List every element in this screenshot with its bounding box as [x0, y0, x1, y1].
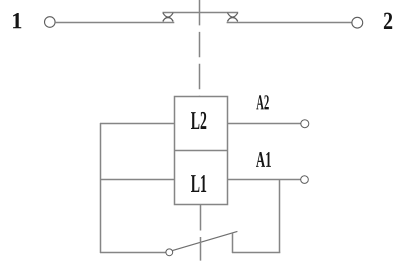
wire top bridge bar: [163, 12, 239, 14]
wire terminal1 to left contact: [55, 22, 174, 24]
wire right contact to terminal2: [227, 22, 352, 24]
mechanical linkage dashed upper: [199, 0, 201, 96]
terminal 1: [45, 17, 56, 28]
terminal 2: [352, 17, 363, 28]
terminal label A2: [256, 95, 269, 109]
wire bottom right: [232, 252, 280, 254]
terminal A2: [301, 120, 309, 128]
wire switch fixed contact drop: [232, 233, 234, 253]
coil divider: [174, 150, 228, 152]
terminal label 1: [13, 13, 21, 28]
switch pivot: [166, 249, 173, 256]
mechanical linkage dashed lower: [200, 205, 202, 261]
coil box: [175, 97, 228, 205]
wire L2 left: [100, 123, 175, 125]
wire left vertical: [100, 123, 102, 253]
wire A2: [228, 123, 301, 125]
wire L1 left: [100, 179, 175, 181]
coil label L1: [191, 175, 206, 192]
wire bottom left: [100, 252, 166, 254]
switch blade: [172, 231, 237, 250]
wire A1: [228, 179, 301, 181]
wire right riser to A1: [279, 180, 281, 253]
contact symbol left half: [163, 13, 173, 22]
contact symbol right half: [227, 13, 237, 22]
terminal label 2: [384, 13, 392, 29]
coil label L2: [191, 112, 206, 129]
terminal A1: [301, 176, 309, 184]
terminal label A1: [256, 152, 271, 167]
